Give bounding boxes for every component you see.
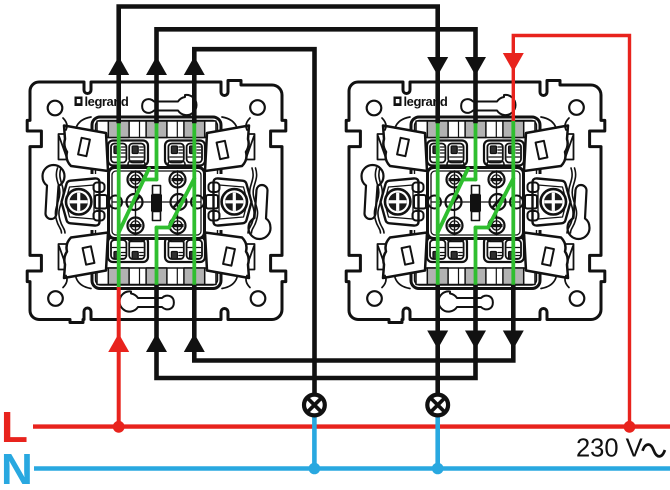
svg-text:N: N: [1, 445, 33, 490]
svg-text:230 V: 230 V: [576, 435, 643, 463]
